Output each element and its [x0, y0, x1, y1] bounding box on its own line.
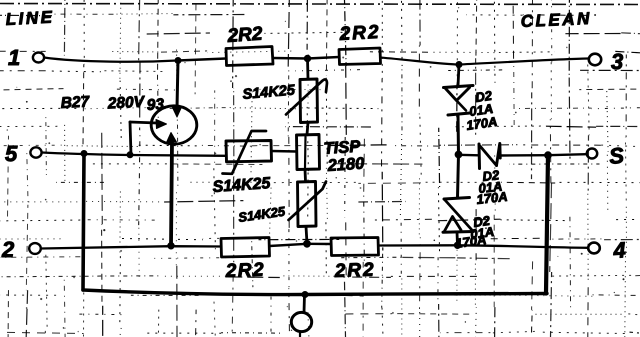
wire D2c to node I — [456, 232, 459, 245]
svg-text:2R2: 2R2 — [333, 260, 376, 282]
node J junction (right vertical tap) — [545, 152, 552, 159]
protection thyristor U1 TISP2180 body — [297, 135, 320, 170]
wire node E to resistor R4 — [307, 243, 331, 246]
varistor RV1 S14K25 body — [300, 79, 318, 123]
svg-text:4: 4 — [612, 237, 627, 263]
varistor RV1 diagonal stroke — [286, 79, 327, 114]
diode D2a apex lead — [457, 101, 467, 111]
wire RV1 to U1 — [307, 123, 308, 135]
wire bottom ground bus — [83, 290, 547, 295]
diode D2b diagonal 2 — [497, 145, 500, 166]
diode D2a cathode bar — [448, 113, 470, 115]
svg-text:2R2: 2R2 — [338, 22, 381, 45]
svg-text:3: 3 — [611, 49, 623, 74]
wire R4 to terminal 4 through node I — [379, 245, 589, 248]
diode D2c triangle — [445, 217, 462, 232]
wire node C down to diode D2a — [458, 65, 459, 87]
wire node D to diode D2b — [459, 154, 479, 157]
V1 left electrode bend down to node G — [130, 122, 131, 155]
V1 bottom electrode arrowhead — [167, 133, 177, 143]
svg-text:1: 1 — [8, 45, 20, 70]
wire node J to terminal 5 clean — [548, 154, 587, 155]
V1 left electrode wire — [130, 122, 157, 123]
wire D2a to node D — [457, 115, 461, 155]
wire R2 to terminal 3 through node C — [381, 58, 589, 65]
node D junction (line 5 right) — [455, 151, 462, 158]
diode D2b diagonal 1 — [480, 146, 497, 166]
wire line 5 from terminal to varistor RV3 — [42, 153, 226, 156]
wire top line from terminal 1 to node A — [44, 58, 177, 62]
junction blob at ground stub — [302, 292, 308, 298]
svg-text:B27: B27 — [60, 93, 91, 112]
varistor RV3 S14K25 body (horizontal) — [226, 141, 272, 162]
node G junction (GDT left electrode tap) — [127, 152, 133, 158]
terminal 2 circle — [29, 243, 41, 254]
node I junction (diode chain bottom) — [454, 242, 460, 248]
node B junction (varistor chain top) — [304, 55, 310, 61]
node A junction (GDT top tap) — [175, 58, 181, 64]
wire RV3 to U1 left side — [272, 150, 297, 153]
wire node A to resistor R1 — [178, 59, 226, 61]
wire RV2 down to node E — [306, 227, 307, 244]
resistor R3 2R2 body (bottom-left) — [221, 238, 270, 258]
node E junction (varistor chain bottom) — [304, 240, 311, 247]
ground electrode circle — [291, 312, 311, 331]
node F junction (left vertical tap) — [81, 151, 87, 157]
diode D2b cathode bar — [478, 144, 482, 169]
diode D2a anode bar — [444, 86, 474, 88]
resistor R4 2R2 body (bottom-right) — [331, 238, 379, 256]
terminal 5 clean circle — [587, 149, 597, 159]
varistor RV3 diagonal stroke — [223, 131, 267, 174]
wire R1 to node B — [273, 57, 307, 60]
terminal 3 circle — [589, 54, 601, 66]
ground tick — [299, 332, 301, 337]
wire node B to resistor R2 — [308, 57, 340, 59]
terminal 1 circle — [33, 53, 44, 63]
svg-text:2R2: 2R2 — [226, 24, 264, 47]
diode D2c anode bar — [443, 230, 474, 234]
resistor 2R2 top-right body — [339, 48, 381, 65]
wire node D down to diode D2c — [458, 155, 459, 198]
U1 inner retrace line — [304, 137, 307, 168]
terminal 4 circle — [588, 243, 600, 254]
wire U1 to varistor RV2 — [304, 170, 307, 182]
node C junction (diode chain top) — [456, 62, 462, 68]
V1 bottom electrode wire down to node H — [171, 142, 172, 246]
svg-text:LINE: LINE — [5, 7, 55, 29]
diode D2c diagonal lead — [445, 200, 472, 230]
svg-text:CLEAN: CLEAN — [520, 9, 592, 31]
wire terminal 2 to resistor R3 through node H — [41, 246, 221, 248]
gas discharge tube V1 envelope — [151, 106, 197, 144]
diode D2a triangle — [446, 88, 470, 101]
diode D2b anode bar — [498, 144, 501, 159]
wire ground stub — [303, 295, 306, 313]
svg-text:S: S — [608, 143, 626, 169]
wire node B down to varistor RV1 — [306, 59, 309, 80]
resistor 2R2 top-left body — [226, 47, 273, 66]
terminal 5 circle — [30, 147, 41, 157]
svg-text:2R2: 2R2 — [224, 260, 265, 282]
V1 left electrode arrowhead — [156, 120, 167, 129]
V1 top electrode wire from node A — [177, 61, 178, 109]
svg-text:2: 2 — [1, 237, 15, 262]
svg-text:280V: 280V — [106, 94, 146, 113]
varistor RV2 S14K25 body — [298, 182, 317, 227]
V1 top electrode arrowhead — [173, 107, 182, 117]
wire right vertical node J to bottom bus — [546, 155, 548, 293]
wire R3 to node E — [270, 244, 308, 246]
wire left vertical from node F down — [83, 154, 84, 291]
varistor RV2 diagonal stroke — [289, 182, 327, 221]
svg-text:93: 93 — [146, 96, 164, 114]
diode D2c cathode bar — [444, 198, 470, 200]
wire D2b to node J — [501, 154, 549, 157]
node H junction (GDT bottom tap) — [168, 243, 174, 249]
svg-text:5: 5 — [5, 141, 18, 166]
svg-text:2180: 2180 — [326, 154, 366, 175]
